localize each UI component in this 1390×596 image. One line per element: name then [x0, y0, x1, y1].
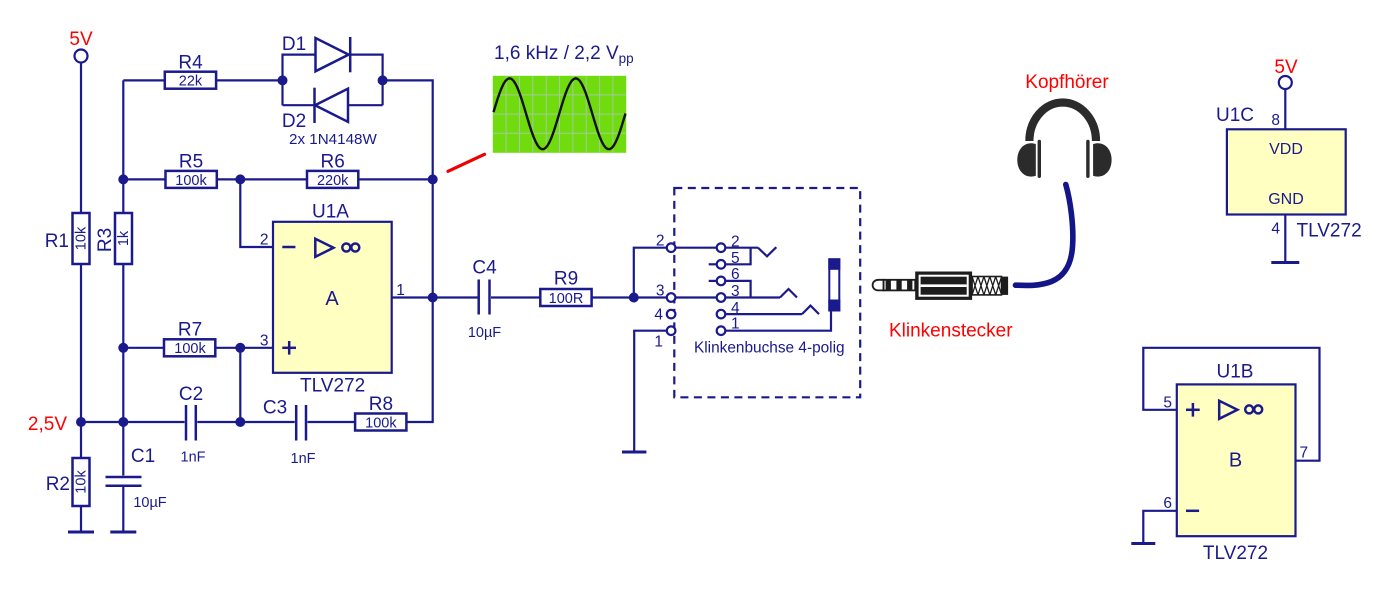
wire headphone cable [1016, 185, 1073, 286]
node socket junction [629, 293, 639, 303]
svg-text:10k: 10k [74, 226, 90, 250]
wire inverting input [240, 179, 273, 247]
pin 4 outer terminal [654, 307, 675, 324]
pin 2 outer terminal [656, 233, 676, 253]
resistor R3 1k [95, 179, 132, 264]
wire R4 branch vertical [122, 80, 124, 179]
svg-text:4: 4 [1271, 221, 1280, 238]
contact 1 inner [717, 311, 831, 336]
svg-text:7: 7 [1300, 445, 1309, 462]
wire red pointer to scope [448, 154, 485, 171]
jack plug Klinkenstecker [873, 272, 1009, 300]
resistor R7 100k [123, 320, 240, 358]
svg-text:U1C: U1C [1216, 105, 1254, 126]
wire op-amp output [392, 296, 433, 298]
wire C4 to R9 [491, 296, 540, 298]
wire R1 to 2.5V node [80, 264, 82, 422]
svg-text:10k: 10k [74, 470, 90, 494]
contact 5 inner [709, 248, 751, 269]
wire U1B pin 6 to ground [1143, 511, 1177, 542]
svg-text:TLV272: TLV272 [1297, 221, 1362, 242]
wire U1B feedback loop pin5 to pin7 [1143, 348, 1319, 461]
svg-text:Kopfhörer: Kopfhörer [1025, 72, 1109, 93]
svg-text:Klinkenbuchse 4-polig: Klinkenbuchse 4-polig [694, 340, 845, 357]
svg-text:GND: GND [1268, 191, 1304, 208]
wire 5V to U1C VDD pin 8 [1271, 89, 1285, 129]
svg-text:D1: D1 [282, 34, 306, 55]
svg-text:C2: C2 [179, 384, 203, 405]
op-amp U1B [1163, 362, 1308, 565]
jack sleeve symbol in socket [828, 258, 840, 311]
svg-text:R3: R3 [95, 228, 116, 252]
svg-text:100R: 100R [549, 291, 584, 307]
ground below R2 [68, 506, 94, 532]
svg-text:4: 4 [654, 307, 663, 324]
node diode left junction [278, 75, 288, 85]
svg-text:R1: R1 [45, 231, 69, 252]
svg-text:1nF: 1nF [181, 450, 206, 466]
node R7 left junction [118, 343, 128, 353]
wire diode right branch [350, 55, 382, 106]
svg-text:2,5V: 2,5V [28, 414, 67, 435]
svg-text:22k: 22k [179, 74, 203, 90]
op-amp power block U1C [1216, 105, 1362, 242]
svg-text:C3: C3 [263, 398, 287, 419]
ground U1C [1271, 261, 1299, 264]
wire 2.5V rail to C2 [81, 421, 185, 423]
svg-text:R7: R7 [178, 320, 202, 341]
node R5 right junction [217, 174, 307, 184]
svg-text:1k: 1k [116, 230, 132, 246]
capacitor C2 1nF [179, 384, 240, 466]
svg-text:5V: 5V [1274, 57, 1298, 78]
contact 4 inner [717, 300, 802, 318]
wire R3 down to 2.5V rail [122, 264, 124, 422]
resistor R9 100R [540, 269, 591, 307]
svg-text:VDD: VDD [1269, 141, 1303, 158]
ground socket pin 1 [622, 451, 646, 454]
wire R8 to output vertical [406, 298, 432, 423]
svg-text:D2: D2 [282, 111, 306, 132]
pin 3 outer terminal [656, 283, 676, 302]
node diode right junction [378, 75, 388, 85]
capacitor C3 1nF [240, 398, 355, 468]
resistor R2 10k [46, 422, 90, 506]
node 5V supply terminal U1C [1274, 57, 1298, 89]
svg-text:100k: 100k [175, 173, 207, 189]
wire 5V to R1 [80, 63, 82, 214]
node R7 right junction [235, 343, 245, 427]
ground below C1 [110, 487, 136, 532]
svg-text:6: 6 [1163, 495, 1172, 512]
wire socket pin 2 feed [634, 248, 667, 298]
switch contact 3 [780, 289, 797, 298]
jack socket J1 dashed outline [674, 188, 860, 397]
svg-text:Klinkenstecker: Klinkenstecker [889, 321, 1013, 342]
wire non-inverting input [240, 347, 273, 349]
svg-text:5V: 5V [69, 29, 93, 50]
node C2 left junction [118, 417, 128, 427]
scope screen with sine wave [493, 76, 626, 153]
switch contact 4 [802, 306, 819, 315]
resistor R8 100k [355, 394, 406, 431]
jack socket label Klinkenbuchse 4-polig [694, 340, 845, 357]
diode D2 [282, 88, 383, 148]
wire diode left branch [283, 55, 316, 106]
svg-text:100k: 100k [365, 415, 397, 431]
svg-text:2: 2 [656, 233, 665, 250]
svg-text:TLV272: TLV272 [300, 375, 365, 396]
svg-text:B: B [1229, 450, 1242, 472]
diode D1 [282, 34, 350, 72]
capacitor C4 10uF [468, 258, 501, 342]
wire output to C4 [433, 296, 478, 298]
svg-text:U1B: U1B [1217, 362, 1254, 383]
switch contact 2 [758, 247, 776, 256]
contact 6 inner [709, 266, 751, 297]
ground U1B [1131, 542, 1155, 545]
resistor R1 10k [45, 213, 90, 264]
wire U1C GND pin 4 [1271, 215, 1285, 262]
wire R6 to vertical [358, 178, 432, 180]
wire R9 to socket node [592, 296, 634, 298]
svg-text:U1A: U1A [312, 202, 349, 223]
resistor R5 100k [123, 151, 217, 189]
svg-text:TLV272: TLV272 [1203, 543, 1268, 564]
contact 2 inner [675, 234, 758, 253]
svg-text:A: A [325, 288, 339, 310]
svg-text:R8: R8 [369, 394, 393, 415]
svg-text:2: 2 [260, 232, 269, 249]
svg-text:10µF: 10µF [133, 495, 166, 511]
node R5 left junction [118, 174, 128, 184]
svg-text:2x 1N4148W: 2x 1N4148W [289, 131, 377, 148]
resistor R6 220k [307, 151, 358, 189]
svg-text:1,6 kHz / 2,2 Vpp: 1,6 kHz / 2,2 Vpp [494, 43, 634, 66]
svg-text:R5: R5 [179, 151, 203, 172]
svg-text:10µF: 10µF [468, 325, 501, 341]
label Kopfhoerer [1025, 72, 1109, 93]
svg-text:100k: 100k [174, 341, 206, 357]
svg-text:3: 3 [656, 283, 665, 300]
capacitor C1 10uF [106, 422, 167, 511]
svg-text:R9: R9 [554, 269, 578, 290]
wire R4 to diodes [216, 79, 282, 81]
svg-text:R4: R4 [178, 52, 203, 73]
node output junction [428, 293, 438, 303]
node 5V supply terminal [69, 29, 93, 63]
svg-text:8: 8 [1271, 112, 1280, 129]
svg-text:220k: 220k [317, 173, 349, 189]
wire diodes to right vertical [383, 80, 433, 179]
svg-text:C1: C1 [131, 446, 155, 467]
headphones icon [1017, 102, 1111, 178]
label Klinkenstecker [889, 321, 1013, 342]
scope caption 1,6 kHz / 2,2 Vpp [494, 43, 634, 66]
svg-text:1nF: 1nF [291, 451, 316, 467]
resistor R4 22k [165, 52, 216, 89]
svg-text:C4: C4 [472, 258, 497, 279]
svg-text:R6: R6 [321, 151, 345, 172]
wire feedback vertical to output [432, 179, 434, 297]
wire socket pin 3 feed [634, 296, 667, 298]
op-amp U1A [260, 202, 405, 397]
node 2,5V [28, 414, 86, 435]
svg-text:1: 1 [654, 334, 663, 351]
node R6 right junction [428, 174, 438, 184]
contact 3 inner [675, 283, 780, 302]
wire R4 row left [123, 79, 165, 81]
wire pin 1 to ground [634, 331, 667, 451]
svg-text:R2: R2 [46, 474, 70, 495]
pin 1 outer terminal [654, 326, 675, 350]
